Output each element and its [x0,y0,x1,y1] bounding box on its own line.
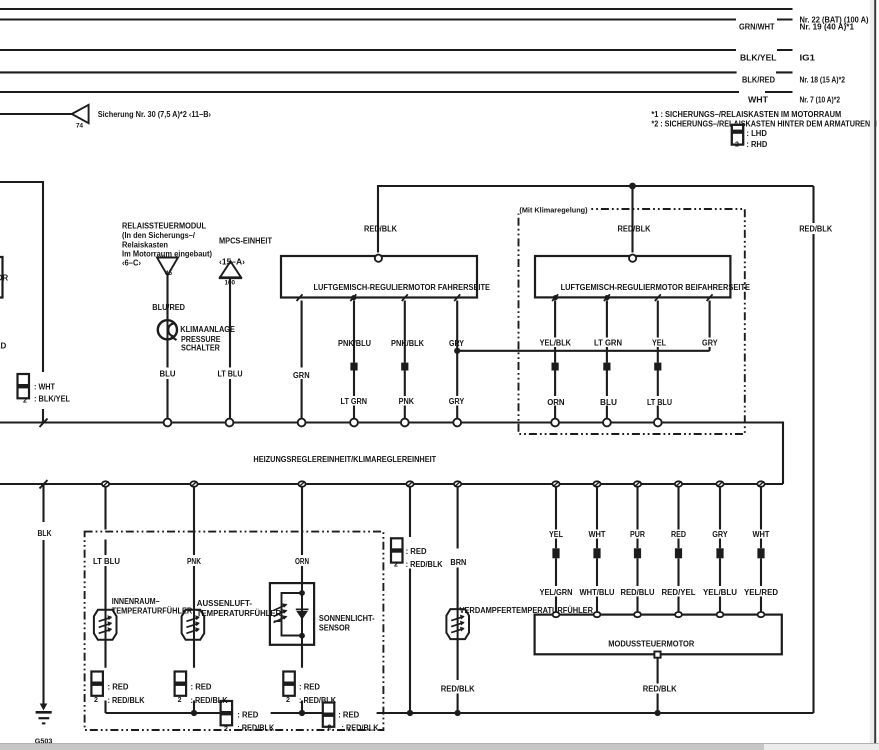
svg-text:PNK/BLU: PNK/BLU [338,339,371,348]
svg-text:: RED/BLK: : RED/BLK [342,723,379,732]
svg-text:: RED: : RED [338,710,359,719]
svg-text:WHT: WHT [589,530,606,539]
svg-text:YEL/BLK: YEL/BLK [540,338,572,347]
svg-text:2: 2 [178,697,182,704]
svg-text:2: 2 [224,726,228,733]
svg-text:TEMPERATURFÜHLER: TEMPERATURFÜHLER [197,609,282,618]
svg-text:PNK: PNK [399,397,415,406]
svg-text:YEL: YEL [549,530,563,539]
svg-text:WHT: WHT [753,530,770,539]
svg-text:Im Motorraum eingebaut): Im Motorraum eingebaut) [122,249,212,258]
svg-text:RED/BLK: RED/BLK [364,224,397,233]
svg-text:HEIZUNGSREGLEREINHEIT/KLIMAREG: HEIZUNGSREGLEREINHEIT/KLIMAREGLEREINHEIT [253,455,436,464]
svg-text:45: 45 [165,270,173,277]
svg-text:: WHT: : WHT [34,383,55,392]
svg-text:LT BLU: LT BLU [218,370,243,379]
svg-text:(Mit Klimaregelung): (Mit Klimaregelung) [519,207,587,214]
svg-text:LT BLU: LT BLU [93,557,120,566]
svg-text:: RED/BLK: : RED/BLK [237,723,274,732]
svg-text:RED/BLK: RED/BLK [799,225,832,234]
svg-text:LT GRN: LT GRN [594,338,622,347]
svg-text:GRN/WHT: GRN/WHT [739,23,775,32]
svg-text:: LHD: : LHD [746,129,767,138]
svg-text:VERDAMPFERTEMPERATURFÜHLER: VERDAMPFERTEMPERATURFÜHLER [460,606,594,615]
svg-text:BRN: BRN [450,558,466,567]
svg-text:2: 2 [735,142,739,149]
svg-text:BLU/RED: BLU/RED [152,303,185,312]
svg-text:AUSSENLUFT-: AUSSENLUFT- [197,599,253,608]
svg-text:GRY: GRY [449,397,465,406]
svg-text:: RED: : RED [299,682,320,691]
svg-text:KLIMAANLAGE: KLIMAANLAGE [180,325,235,334]
svg-text:IG1: IG1 [800,53,816,62]
svg-text:Relaiskasten: Relaiskasten [122,240,168,249]
svg-text:RED/BLK: RED/BLK [441,685,475,694]
svg-text:ED: ED [0,342,7,351]
svg-text:2: 2 [327,725,331,732]
svg-text:: RED/BLK: : RED/BLK [108,696,145,705]
svg-text:LUFTGEMISCH-REGULIERMOTOR FAHR: LUFTGEMISCH-REGULIERMOTOR FAHRERSEITE [314,283,491,292]
svg-text:SCHALTER: SCHALTER [181,343,220,352]
svg-text:(In den Sicherungs–/: (In den Sicherungs–/ [122,231,196,240]
svg-text:BLK/YEL: BLK/YEL [740,54,777,63]
svg-text:LT BLU: LT BLU [647,398,672,407]
svg-text:LT GRN: LT GRN [341,397,368,406]
svg-text:TOR: TOR [0,273,8,282]
svg-text:: RED/BLK: : RED/BLK [406,560,443,569]
svg-text:: RHD: : RHD [746,140,767,149]
svg-text:RED/BLK: RED/BLK [618,224,651,233]
svg-text:RELAISSTEUERMODUL: RELAISSTEUERMODUL [122,221,206,230]
svg-text:WHT: WHT [748,96,768,105]
svg-text:BLU: BLU [160,370,176,379]
svg-text:Sicherung Nr. 30 (7,5 A)*2 ‹11: Sicherung Nr. 30 (7,5 A)*2 ‹11–B› [98,110,212,119]
svg-text:: RED: : RED [237,710,258,719]
svg-text:SONNENLICHT-: SONNENLICHT- [319,614,375,623]
svg-text:: RED: : RED [406,547,427,556]
svg-text:YEL/BLU: YEL/BLU [703,588,737,597]
svg-text:: BLK/YEL: : BLK/YEL [34,394,70,403]
svg-text:‹6–C›: ‹6–C› [122,258,141,267]
svg-text:: RED: : RED [191,682,212,691]
svg-text:PUR: PUR [630,530,645,539]
svg-text:Nr. 19 (40 A)*1: Nr. 19 (40 A)*1 [800,23,855,32]
svg-text:YEL/GRN: YEL/GRN [540,588,573,597]
svg-text:MPCS-EINHEIT: MPCS-EINHEIT [219,236,272,245]
svg-text:*1 : SICHERUNGS–/RELAISKASTEN: *1 : SICHERUNGS–/RELAISKASTEN IM MOTORRA… [651,110,841,119]
svg-text:GRN: GRN [293,371,310,380]
svg-text:RED/YEL: RED/YEL [662,588,696,597]
svg-text:RED: RED [671,530,686,539]
svg-text:‹15–A›: ‹15–A› [219,257,245,266]
svg-text:*2 : SICHERUNGS–/RELAISKASTEN: *2 : SICHERUNGS–/RELAISKASTEN HINTER DEM… [651,120,879,129]
svg-text:RED/BLU: RED/BLU [621,588,655,597]
svg-text:YEL: YEL [652,338,666,347]
svg-text:2: 2 [23,397,27,404]
svg-text:BLK/RED: BLK/RED [742,76,775,85]
svg-text:100: 100 [225,279,236,286]
svg-text:: RED/BLK: : RED/BLK [191,696,228,705]
svg-text:RED/BLK: RED/BLK [643,685,677,694]
svg-text:2: 2 [394,561,398,568]
svg-text:Nr. 18 (15 A)*2: Nr. 18 (15 A)*2 [800,76,846,85]
svg-text:: RED: : RED [108,682,129,691]
svg-text:2: 2 [286,697,290,704]
svg-text:TEMPERATURFÜHLER: TEMPERATURFÜHLER [112,606,193,615]
svg-text:MODUSSTEUERMOTOR: MODUSSTEUERMOTOR [608,640,694,649]
svg-text:WHT/BLU: WHT/BLU [580,588,615,597]
svg-text:GRY: GRY [702,338,718,347]
svg-text:74: 74 [76,123,84,130]
svg-text:BLU: BLU [600,398,617,407]
svg-text:GRY: GRY [449,339,465,348]
svg-text:Nr. 7 (10 A)*2: Nr. 7 (10 A)*2 [800,96,841,105]
svg-text:ORN: ORN [547,398,565,407]
svg-text:: RED/BLK: : RED/BLK [299,696,336,705]
svg-text:2: 2 [94,697,98,704]
svg-text:ORN: ORN [295,557,309,566]
svg-text:PNK/BLK: PNK/BLK [391,339,424,348]
svg-text:BLK: BLK [38,529,52,538]
svg-text:GRY: GRY [712,530,728,539]
svg-text:INNENRAUM–: INNENRAUM– [112,597,160,606]
svg-text:PNK: PNK [187,557,201,566]
svg-text:YEL/RED: YEL/RED [744,588,778,597]
svg-text:LUFTGEMISCH-REGULIERMOTOR BEIF: LUFTGEMISCH-REGULIERMOTOR BEIFAHRERSEITE [561,283,751,292]
svg-text:SENSOR: SENSOR [319,623,350,632]
